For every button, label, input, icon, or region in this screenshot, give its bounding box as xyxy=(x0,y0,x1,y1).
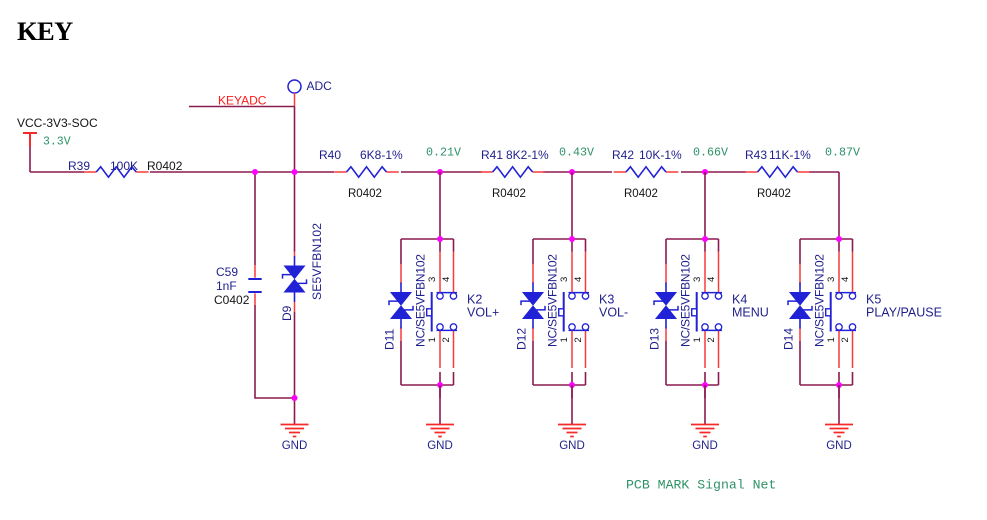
svg-text:11K-1%: 11K-1% xyxy=(769,148,811,162)
ground GND K4 xyxy=(704,385,706,424)
svg-text:KEY: KEY xyxy=(17,16,73,46)
svg-text:6K8-1%: 6K8-1% xyxy=(360,148,403,162)
pin ADC stub xyxy=(294,93,296,107)
svg-text:3: 3 xyxy=(427,277,438,282)
svg-text:0.21V: 0.21V xyxy=(426,145,461,159)
svg-text:R40: R40 xyxy=(319,148,341,162)
wire C59 top xyxy=(254,172,256,265)
port ADC xyxy=(288,80,301,93)
svg-text:0.87V: 0.87V xyxy=(825,145,860,159)
svg-text:3: 3 xyxy=(559,277,570,282)
resistor R43 xyxy=(745,167,810,177)
svg-text:4: 4 xyxy=(840,277,851,282)
capacitor C59 xyxy=(248,265,261,305)
wire power drop xyxy=(29,147,31,172)
svg-text:ADC: ADC xyxy=(307,79,333,93)
power symbol VCC-3V3-SOC xyxy=(23,133,37,147)
svg-text:1nF: 1nF xyxy=(216,279,237,293)
svg-text:R41: R41 xyxy=(481,148,503,162)
wire bus segment 3 xyxy=(401,171,482,173)
key module K2 wiring xyxy=(401,172,454,398)
diode D13 xyxy=(654,264,678,341)
resistor R39 xyxy=(84,167,149,177)
svg-text:K5: K5 xyxy=(866,293,881,307)
svg-text:2: 2 xyxy=(573,337,584,342)
svg-text:NC/SE5VFBN102: NC/SE5VFBN102 xyxy=(679,254,693,347)
switch K5 xyxy=(826,252,856,369)
ground GND K3 xyxy=(571,385,573,424)
svg-text:1: 1 xyxy=(692,337,703,342)
svg-text:D12: D12 xyxy=(515,328,529,350)
svg-text:GND: GND xyxy=(559,440,585,452)
svg-text:KEYADC: KEYADC xyxy=(218,94,267,108)
wire bus segment 2 xyxy=(150,171,334,173)
junction bus 1 xyxy=(252,169,258,175)
svg-text:R0402: R0402 xyxy=(624,188,658,200)
svg-text:NC/SE5VFBN102: NC/SE5VFBN102 xyxy=(414,254,428,347)
svg-text:2: 2 xyxy=(441,337,452,342)
svg-text:2: 2 xyxy=(840,337,851,342)
switch K4 xyxy=(692,252,722,369)
diode D14 xyxy=(788,264,812,341)
svg-text:3: 3 xyxy=(826,277,837,282)
junction K5 bottom xyxy=(836,382,842,388)
svg-text:D9: D9 xyxy=(280,305,294,321)
diode D9 xyxy=(283,252,307,313)
wire ADC drop xyxy=(294,107,296,173)
svg-text:MENU: MENU xyxy=(732,306,769,320)
svg-text:R0402: R0402 xyxy=(147,159,183,173)
svg-text:GND: GND xyxy=(427,440,453,452)
svg-text:D14: D14 xyxy=(782,328,796,350)
svg-text:1: 1 xyxy=(559,337,570,342)
key module K5 wiring xyxy=(800,172,853,398)
resistor R41 xyxy=(480,167,545,177)
svg-text:8K2-1%: 8K2-1% xyxy=(506,148,549,162)
junction K4 bottom xyxy=(702,382,708,388)
svg-text:4: 4 xyxy=(706,277,717,282)
svg-text:PCB MARK Signal Net: PCB MARK Signal Net xyxy=(626,478,776,493)
key module K3 wiring xyxy=(533,172,586,398)
svg-text:4: 4 xyxy=(573,277,584,282)
junction D9 bottom xyxy=(292,395,298,401)
svg-text:2: 2 xyxy=(706,337,717,342)
svg-text:VOL-: VOL- xyxy=(599,306,628,320)
resistor R40 xyxy=(334,167,399,177)
svg-text:VOL+: VOL+ xyxy=(467,306,499,320)
svg-text:K4: K4 xyxy=(732,293,747,307)
svg-text:R42: R42 xyxy=(612,148,634,162)
junction bus 5 xyxy=(702,169,708,175)
wire C59 bottom xyxy=(255,305,295,398)
junction K5 top xyxy=(836,236,842,242)
ground GND K2 xyxy=(439,385,441,424)
svg-text:GND: GND xyxy=(692,440,718,452)
svg-text:1: 1 xyxy=(826,337,837,342)
svg-text:NC/SE5VFBN102: NC/SE5VFBN102 xyxy=(813,254,827,347)
wire D9 top xyxy=(294,172,296,252)
svg-text:PLAY/PAUSE: PLAY/PAUSE xyxy=(866,306,942,320)
svg-text:3: 3 xyxy=(692,277,703,282)
junction K2 bottom xyxy=(437,382,443,388)
svg-text:C0402: C0402 xyxy=(214,293,250,307)
wire KEYADC xyxy=(189,106,295,108)
svg-text:GND: GND xyxy=(282,440,308,452)
svg-text:R0402: R0402 xyxy=(492,188,526,200)
svg-text:R43: R43 xyxy=(745,148,767,162)
svg-text:1: 1 xyxy=(427,337,438,342)
diode D11 xyxy=(389,264,413,341)
junction K3 bottom xyxy=(569,382,575,388)
junction bus 4 xyxy=(569,169,575,175)
svg-text:4: 4 xyxy=(441,277,452,282)
svg-text:0.66V: 0.66V xyxy=(693,145,728,159)
switch K3 xyxy=(559,252,589,369)
svg-text:VCC-3V3-SOC: VCC-3V3-SOC xyxy=(17,116,98,130)
svg-text:3.3V: 3.3V xyxy=(43,136,71,149)
resistor R42 xyxy=(614,167,679,177)
svg-text:10K-1%: 10K-1% xyxy=(639,148,682,162)
diode D12 xyxy=(521,264,545,341)
svg-text:K2: K2 xyxy=(467,293,482,307)
wire bus segment 5 xyxy=(681,171,746,173)
svg-text:K3: K3 xyxy=(599,293,614,307)
svg-text:R39: R39 xyxy=(68,159,90,173)
svg-text:GND: GND xyxy=(826,440,852,452)
svg-text:NC/SE5VFBN102: NC/SE5VFBN102 xyxy=(546,254,560,347)
svg-text:0.43V: 0.43V xyxy=(559,145,594,159)
wire bus segment 4 xyxy=(543,171,612,173)
junction bus 3 xyxy=(437,169,443,175)
ground GND K5 xyxy=(838,385,840,424)
svg-text:R0402: R0402 xyxy=(348,188,382,200)
svg-text:C59: C59 xyxy=(216,265,238,279)
switch K2 xyxy=(427,252,457,369)
junction K2 top xyxy=(437,236,443,242)
wire D9 bottom xyxy=(294,312,296,398)
junction K4 top xyxy=(702,236,708,242)
wire bus segment 6 xyxy=(809,171,839,173)
junction K3 top xyxy=(569,236,575,242)
svg-text:D13: D13 xyxy=(648,328,662,350)
svg-text:D11: D11 xyxy=(383,329,397,350)
wire bus segment 1 xyxy=(30,171,84,173)
key module K4 wiring xyxy=(666,172,719,398)
svg-text:100K: 100K xyxy=(110,159,138,173)
junction bus 2 xyxy=(292,169,298,175)
svg-text:SE5VFBN102: SE5VFBN102 xyxy=(310,223,324,300)
ground GND D9 xyxy=(294,398,296,424)
svg-text:R0402: R0402 xyxy=(757,188,791,200)
